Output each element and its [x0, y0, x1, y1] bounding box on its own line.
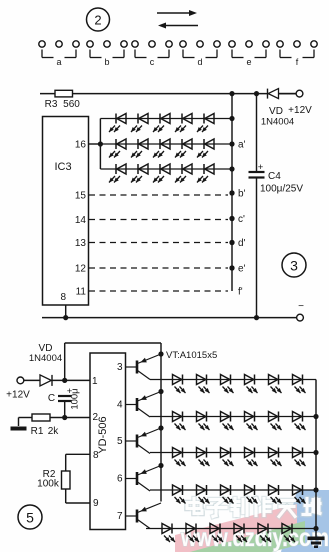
svg-text:3: 3	[117, 362, 123, 373]
svg-text:5: 5	[26, 510, 34, 526]
svg-text:IC3: IC3	[54, 161, 71, 173]
svg-text:R1: R1	[31, 426, 44, 437]
svg-text:6: 6	[117, 474, 123, 485]
svg-text:2k: 2k	[48, 426, 60, 437]
svg-text:a: a	[56, 57, 61, 67]
svg-text:YD-506: YD-506	[97, 416, 109, 453]
svg-text:4: 4	[117, 400, 123, 411]
svg-text:2: 2	[93, 412, 99, 423]
svg-text:VD: VD	[269, 106, 283, 117]
svg-text:5: 5	[117, 436, 123, 447]
svg-text:VT:A1015x5: VT:A1015x5	[166, 350, 217, 361]
svg-text:9: 9	[93, 498, 99, 509]
svg-text:14: 14	[75, 215, 87, 226]
svg-text:8: 8	[93, 450, 99, 461]
svg-text:12: 12	[75, 264, 87, 275]
svg-text:−: −	[298, 301, 304, 312]
svg-text:R3: R3	[45, 99, 58, 110]
svg-text:100μ: 100μ	[70, 388, 81, 409]
svg-text:C: C	[48, 393, 55, 404]
svg-text:560: 560	[63, 99, 80, 110]
svg-text:c: c	[150, 57, 155, 67]
svg-text:+12V: +12V	[288, 105, 312, 116]
svg-text:b': b'	[238, 189, 246, 200]
svg-text:+: +	[258, 162, 264, 173]
svg-text:b: b	[104, 57, 109, 67]
svg-text:16: 16	[75, 140, 87, 151]
svg-text:15: 15	[75, 191, 87, 202]
svg-text:C4: C4	[268, 171, 281, 182]
svg-text:11: 11	[76, 287, 87, 298]
svg-text:3: 3	[290, 258, 298, 274]
svg-text:+12V: +12V	[6, 390, 30, 401]
svg-text:e': e'	[238, 264, 246, 275]
svg-text:13: 13	[75, 238, 87, 249]
svg-text:8: 8	[60, 292, 66, 303]
svg-text:2: 2	[94, 13, 101, 28]
svg-text:a': a'	[238, 140, 246, 151]
svg-text:e: e	[246, 57, 251, 67]
svg-text:100k: 100k	[37, 479, 60, 490]
svg-text:7: 7	[117, 511, 123, 522]
svg-text:f': f'	[238, 287, 243, 298]
svg-text:1: 1	[92, 376, 98, 387]
svg-text:100μ/25V: 100μ/25V	[260, 184, 303, 195]
svg-text:c': c'	[238, 214, 245, 225]
svg-text:d': d'	[238, 238, 246, 249]
svg-text:1N4004: 1N4004	[261, 117, 294, 128]
svg-text:d: d	[197, 57, 202, 67]
svg-text:1N4004: 1N4004	[29, 353, 62, 364]
